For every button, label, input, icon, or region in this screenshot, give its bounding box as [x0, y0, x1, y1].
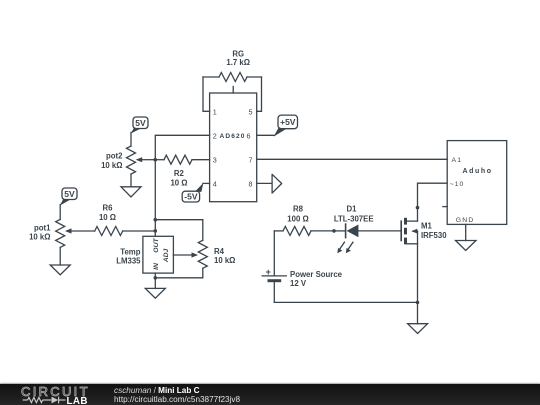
wire pin3: [192, 159, 210, 161]
pin stub Aduho left: [443, 206, 447, 208]
resistor R2: [155, 155, 192, 164]
ground under Aduho: [456, 241, 477, 251]
wire node to R4 top: [155, 220, 203, 241]
svg-text:pot2: pot2: [106, 151, 123, 160]
svg-text:LAB: LAB: [67, 396, 88, 405]
svg-text:D1: D1: [347, 205, 358, 214]
potentiometer pot2: [127, 133, 156, 187]
wire LM335 IN down: [154, 273, 156, 288]
svg-text:10 kΩ: 10 kΩ: [214, 256, 235, 265]
Arduino Aduho body: [447, 141, 507, 225]
svg-text:IN: IN: [153, 262, 160, 270]
svg-text:Aduho: Aduho: [463, 168, 493, 175]
op-amp U1 AD620 body: [210, 87, 257, 202]
resistor R8: [274, 226, 334, 235]
wire M1 source down: [417, 244, 419, 324]
footer bar: [0, 384, 540, 405]
svg-text:Power Source: Power Source: [290, 270, 343, 279]
svg-text:LTL-307EE: LTL-307EE: [334, 214, 374, 223]
pot1 wiper arrow: [65, 228, 72, 233]
svg-text:R2: R2: [174, 169, 185, 178]
svg-text:12 V: 12 V: [290, 279, 307, 288]
svg-text:7: 7: [249, 155, 253, 164]
svg-text:10 Ω: 10 Ω: [170, 178, 187, 187]
rheostat R4: [198, 240, 207, 277]
resistor R6: [95, 227, 156, 236]
node R4-top branch: [154, 218, 158, 222]
svg-text:3: 3: [213, 155, 217, 164]
node R8/D1: [332, 229, 336, 233]
svg-text:pot1: pot1: [34, 224, 51, 233]
-5V label: [182, 191, 199, 202]
node source/battery return: [416, 301, 420, 305]
Temp LM335 body: [143, 236, 174, 273]
ground under pot2: [121, 187, 141, 197]
svg-text:ADJ: ADJ: [163, 248, 170, 263]
footer title line: [114, 386, 240, 405]
svg-text:A1: A1: [452, 157, 463, 164]
svg-text:R8: R8: [293, 205, 304, 214]
node pot2-wiper/R2/pin2: [154, 158, 158, 162]
resistor RG: [203, 73, 262, 112]
wire pin2 to pot2 net: [155, 135, 209, 236]
battery V1 Power Source: [262, 231, 286, 303]
ground under pot1: [50, 265, 70, 275]
svg-text:R6: R6: [103, 204, 114, 213]
logo diode: [52, 397, 59, 404]
ground under LM335: [145, 288, 165, 298]
wire pin6: [257, 134, 275, 136]
5V label at pot2: [133, 117, 148, 129]
svg-text:1.7 kΩ: 1.7 kΩ: [226, 58, 250, 67]
+5V flag tail: [274, 128, 287, 137]
diode D1 LTL-307EE: [334, 224, 358, 253]
svg-text:5V: 5V: [135, 118, 146, 128]
port triangle at pin8: [272, 174, 282, 193]
transistor M1 IRF530: [401, 218, 417, 244]
svg-text:GND: GND: [456, 217, 475, 224]
wire battery return: [274, 301, 417, 303]
svg-text:+: +: [266, 267, 271, 277]
svg-text:+5V: +5V: [280, 117, 296, 127]
svg-text:R4: R4: [214, 247, 225, 256]
logo wire+resistor: [23, 397, 66, 404]
+5V label: [278, 115, 298, 129]
svg-text:5: 5: [249, 107, 253, 116]
svg-text:M1: M1: [421, 222, 432, 231]
svg-text:5V: 5V: [64, 189, 75, 199]
svg-text:4: 4: [213, 179, 217, 188]
svg-text:8: 8: [249, 179, 253, 188]
svg-text:1: 1: [213, 107, 217, 116]
svg-text:10 kΩ: 10 kΩ: [29, 233, 50, 242]
wire gate from D1: [358, 230, 401, 232]
potentiometer pot1: [56, 205, 95, 266]
svg-text:10 Ω: 10 Ω: [99, 213, 116, 222]
wire pin4 stub: [203, 182, 210, 184]
svg-text:10 kΩ: 10 kΩ: [101, 161, 122, 170]
svg-text:AD620: AD620: [219, 133, 245, 140]
svg-text:~10: ~10: [450, 181, 465, 188]
5V flag tail at pot1: [60, 199, 70, 206]
svg-text:Temp: Temp: [120, 247, 140, 256]
svg-text:IRF530: IRF530: [421, 231, 447, 240]
wire GND pin: [465, 224, 467, 240]
-5V flag tail: [195, 183, 204, 192]
node R6 branch: [154, 229, 158, 233]
svg-text:2: 2: [213, 131, 217, 140]
node LM335 IN / R4 bottom: [154, 276, 158, 280]
svg-text:-5V: -5V: [184, 192, 198, 202]
ground under M1: [408, 324, 428, 334]
5V label at pot1: [62, 188, 77, 200]
wire pin8: [257, 182, 272, 184]
wire pin7 to A1: [257, 158, 448, 160]
pot2 wiper arrow: [136, 157, 143, 162]
svg-text:OUT: OUT: [153, 237, 160, 252]
wire R4 bottom to LM335 IN: [155, 277, 203, 279]
svg-text:6: 6: [247, 131, 251, 140]
node M1 drain / ~10: [416, 206, 420, 210]
5V flag tail at pot2: [131, 128, 141, 134]
wire LM335 ADJ to R4 wiper: [173, 254, 193, 256]
svg-text:100 Ω: 100 Ω: [287, 214, 308, 223]
svg-text:LM335: LM335: [116, 257, 141, 266]
R4 wiper arrow: [192, 252, 199, 257]
logo CIRCUIT text: [0, 383, 110, 405]
wire ~10 to M1 drain: [418, 183, 448, 221]
